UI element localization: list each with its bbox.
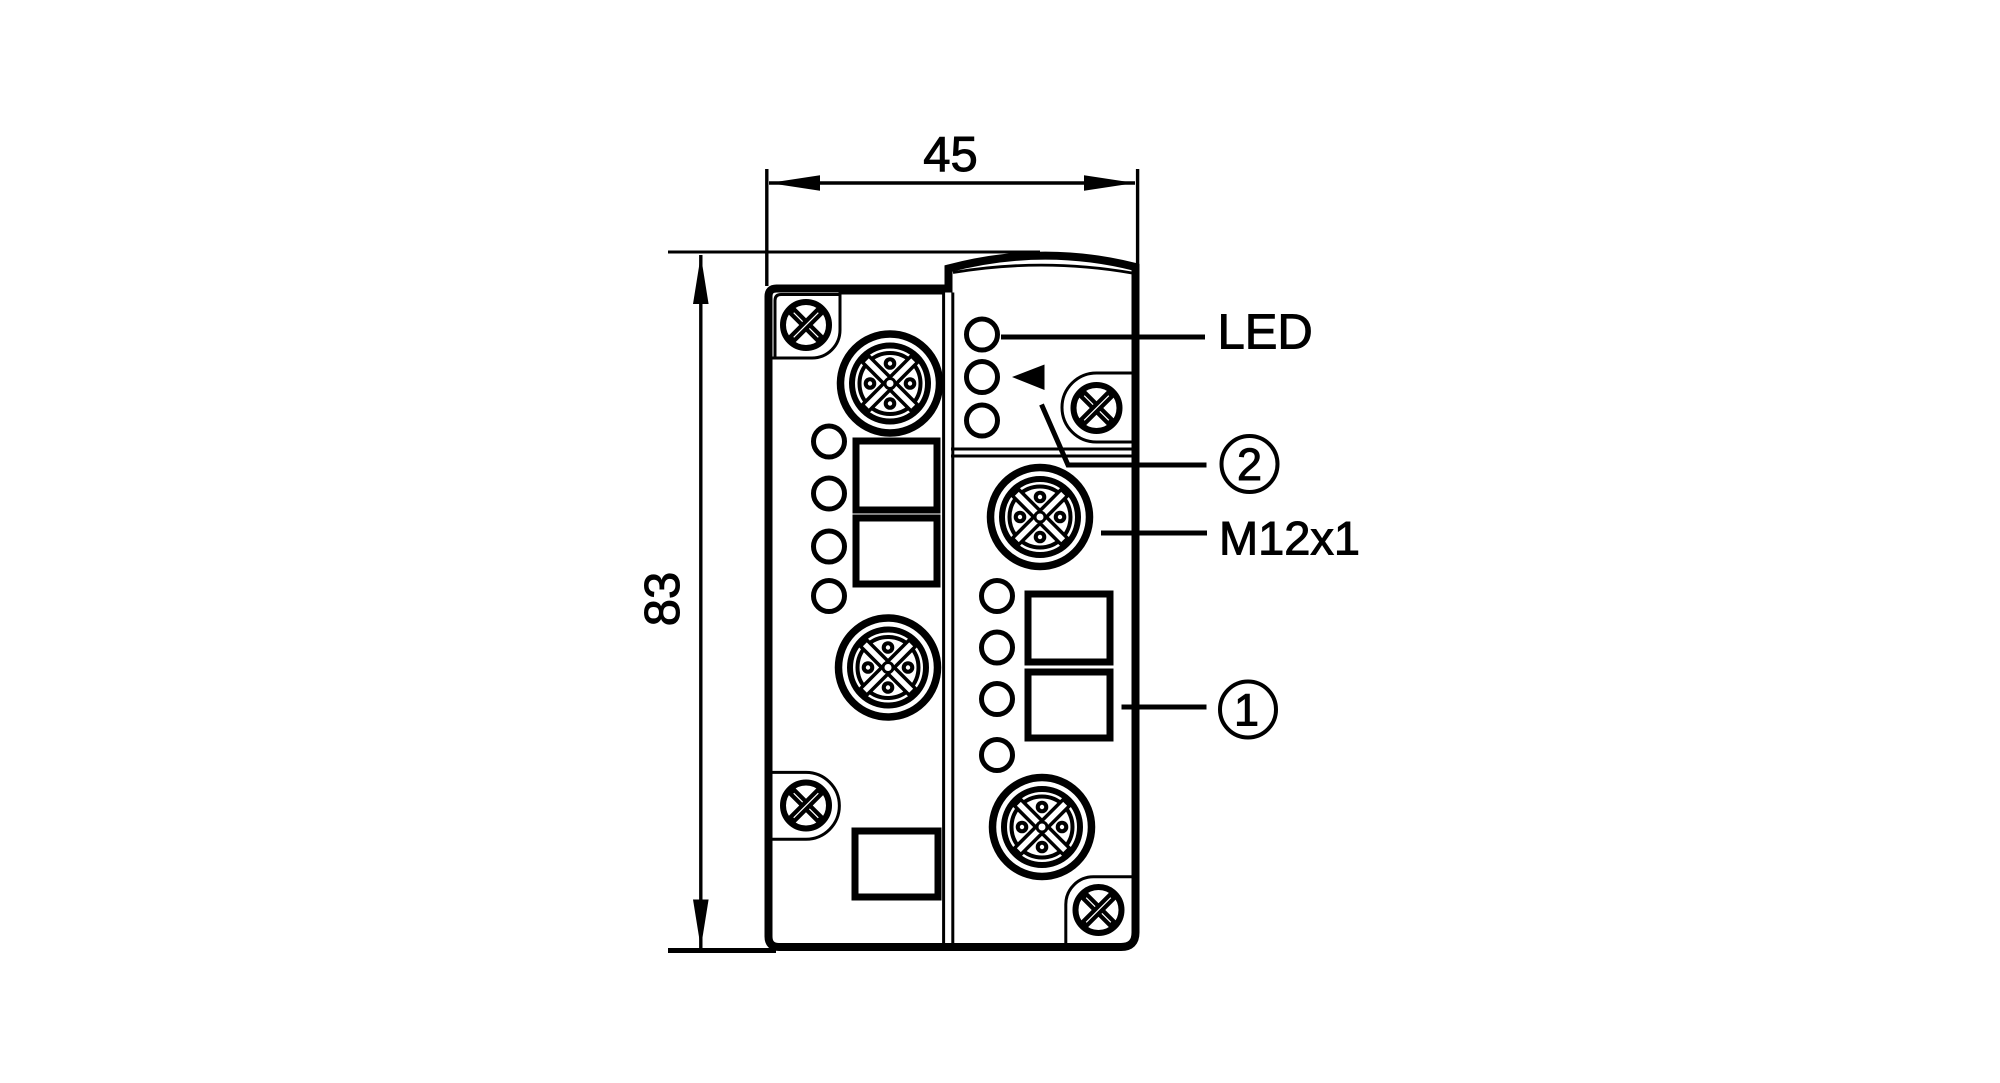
svg-text:LED: LED — [1218, 306, 1313, 360]
svg-text:M12x1: M12x1 — [1219, 512, 1360, 565]
svg-text:2: 2 — [1237, 439, 1262, 490]
svg-text:45: 45 — [923, 128, 978, 182]
svg-text:1: 1 — [1234, 685, 1259, 736]
svg-text:83: 83 — [636, 572, 690, 627]
